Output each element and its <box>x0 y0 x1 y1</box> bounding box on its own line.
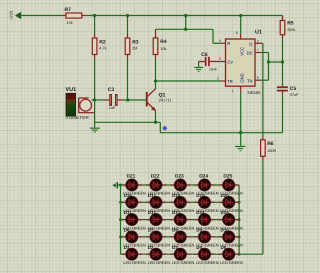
svg-text:4.7k: 4.7k <box>99 46 106 50</box>
terminal output left of matrix <box>112 182 120 188</box>
svg-text:7: 7 <box>257 49 259 53</box>
LED D1 LED-GREEN <box>122 245 146 265</box>
svg-text:1: 1 <box>232 89 234 93</box>
node DC/R5 <box>267 60 270 63</box>
node rail-R2 <box>93 14 96 17</box>
LED D6 LED-GREEN <box>122 228 146 248</box>
ground symbol at C6 <box>194 62 203 73</box>
svg-text:C5: C5 <box>290 86 297 92</box>
wire link to pin R <box>213 29 220 43</box>
pin 5 CV stub <box>219 57 226 61</box>
wire node to C5 <box>282 62 284 86</box>
wire LED row 3 <box>121 219 240 221</box>
ground symbol under U1 <box>235 133 245 152</box>
pin 2 TR stub <box>217 77 226 81</box>
svg-text:D9: D9 <box>196 228 202 233</box>
svg-text:47uF: 47uF <box>290 93 299 97</box>
svg-text:LED-GREEN: LED-GREEN <box>172 261 195 265</box>
svg-text:R5: R5 <box>287 21 294 27</box>
svg-text:R2: R2 <box>99 40 106 46</box>
transistor Q1 2N1711 <box>146 89 172 111</box>
node left bus junction <box>119 218 122 221</box>
svg-text:3: 3 <box>257 39 259 43</box>
LED D19 LED-GREEN <box>195 193 219 213</box>
node R4 link <box>184 28 187 31</box>
svg-text:VCC: VCC <box>239 47 244 56</box>
svg-text:LED-GREEN: LED-GREEN <box>220 261 243 265</box>
svg-text:R7: R7 <box>65 7 72 13</box>
ground symbol under mic <box>90 122 100 132</box>
LED D11 LED-GREEN <box>122 210 146 230</box>
wire rail to R2 <box>94 16 96 35</box>
svg-text:D12: D12 <box>148 210 157 215</box>
pin 1 GND stub <box>232 86 241 93</box>
svg-text:D13: D13 <box>172 210 181 215</box>
svg-text:2N1711: 2N1711 <box>159 99 172 103</box>
node left bus row1 <box>119 184 122 187</box>
svg-text:C6: C6 <box>201 52 208 58</box>
svg-text:D14: D14 <box>196 210 205 215</box>
svg-text:8: 8 <box>236 31 238 35</box>
wire rail to R3 <box>127 16 129 35</box>
marker origin diamond <box>162 126 167 131</box>
svg-text:D10: D10 <box>221 228 230 233</box>
resistor R4 10k <box>153 29 167 58</box>
LED D5 LED-GREEN <box>219 245 243 265</box>
wire mic to node <box>92 99 105 101</box>
node R5/C5 <box>281 60 284 63</box>
wire LED row 1 <box>121 184 240 186</box>
wire R2 to mic node <box>94 59 96 100</box>
LED D16 LED-GREEN <box>122 193 146 213</box>
svg-text:D21: D21 <box>127 173 136 179</box>
svg-text:NE555: NE555 <box>248 90 262 95</box>
svg-text:U1: U1 <box>255 30 262 36</box>
svg-text:D18: D18 <box>172 193 181 198</box>
node rail-R3 <box>126 14 129 17</box>
svg-text:D17: D17 <box>148 193 157 198</box>
svg-text:D8: D8 <box>172 228 178 233</box>
svg-text:VU1: VU1 <box>66 87 77 93</box>
power terminal +220 arrow <box>8 10 21 20</box>
resistor R6 100R <box>261 136 277 160</box>
wire rail main segment <box>86 15 283 17</box>
wire TR to U1 pin2 <box>156 80 221 82</box>
wire DC node to R5 node <box>269 61 283 63</box>
svg-text:D24: D24 <box>199 173 208 179</box>
wire LED row 5 <box>121 253 240 255</box>
LED D24 LED-GREEN <box>195 173 219 195</box>
LED D23 LED-GREEN <box>170 173 194 195</box>
svg-text:D7: D7 <box>148 228 154 233</box>
svg-text:2M: 2M <box>132 46 137 50</box>
wire GND pin down <box>240 92 242 133</box>
LED D2 LED-GREEN <box>146 245 170 265</box>
pin 4 R stub <box>219 39 226 43</box>
node right bus junction <box>238 235 241 238</box>
LED D13 LED-GREEN <box>170 210 194 230</box>
svg-text:R6: R6 <box>267 141 274 147</box>
wire R6 down to LED matrix <box>239 160 263 254</box>
LED D14 LED-GREEN <box>195 210 219 230</box>
resistor R5 200k <box>280 16 295 39</box>
svg-text:LED-GREEN: LED-GREEN <box>123 261 146 265</box>
pin 3 Q stub <box>255 39 261 43</box>
svg-text:D16: D16 <box>124 193 133 198</box>
wire mic node down to ground wire <box>94 100 96 122</box>
LED D10 LED-GREEN <box>219 228 243 248</box>
svg-text:D4: D4 <box>196 245 202 250</box>
svg-text:LED-GREEN: LED-GREEN <box>196 261 219 265</box>
wire rail corner to R5 <box>282 16 284 21</box>
wire right bus <box>238 185 240 254</box>
svg-text:CV: CV <box>227 60 233 65</box>
wire Q output down to R6 <box>261 43 263 136</box>
svg-text:R: R <box>227 41 230 46</box>
svg-text:GND: GND <box>239 73 244 83</box>
wire C3 to Q1 base <box>122 99 145 101</box>
resistor R3 2M <box>125 34 139 59</box>
resistor R7 15k <box>62 7 86 25</box>
node right bus bottom <box>238 253 241 256</box>
capacitor C6 10nF <box>199 52 221 71</box>
node emitter/ground wire <box>154 121 157 124</box>
node R3/base <box>126 98 129 101</box>
LED D22 LED-GREEN <box>146 173 170 195</box>
svg-text:4: 4 <box>219 39 221 43</box>
node left bus junction <box>119 201 122 204</box>
node mic/R2 <box>93 98 96 101</box>
svg-text:D23: D23 <box>175 173 184 179</box>
LED D15 LED-GREEN <box>219 210 243 230</box>
LED D12 LED-GREEN <box>146 210 170 230</box>
wire R3 to base node <box>127 59 129 100</box>
svg-text:D25: D25 <box>223 173 232 179</box>
LED D4 LED-GREEN <box>195 245 219 265</box>
svg-text:5: 5 <box>219 57 221 61</box>
LED D8 LED-GREEN <box>170 228 194 248</box>
op-amp U1 NE555 timer <box>226 30 262 96</box>
wire left bus <box>120 185 122 254</box>
resistor R2 4.7k <box>92 34 106 59</box>
node right bus junction <box>238 201 241 204</box>
LED D20 LED-GREEN <box>219 193 243 213</box>
svg-text:D1: D1 <box>124 245 130 250</box>
wire R5 to node <box>282 39 284 62</box>
LED D25 LED-GREEN <box>219 173 243 195</box>
wire ground run mic to step <box>95 121 161 123</box>
wire LED row 2 <box>121 201 240 203</box>
svg-text:6: 6 <box>257 76 259 80</box>
svg-text:R3: R3 <box>132 40 139 46</box>
wire TH to vertical <box>261 79 269 81</box>
LED D21 LED-GREEN <box>122 173 146 195</box>
svg-text:LED-GREEN: LED-GREEN <box>148 261 171 265</box>
svg-text:TR: TR <box>227 79 233 84</box>
svg-text:D6: D6 <box>124 228 130 233</box>
wire ground run to C5 corner <box>160 132 282 134</box>
svg-text:Q: Q <box>249 41 252 46</box>
wire R4 to collector <box>155 59 157 89</box>
pin 6 TH stub <box>255 76 261 80</box>
wire DC to vertical <box>261 53 269 81</box>
svg-text:TH: TH <box>247 78 253 83</box>
svg-text:2: 2 <box>217 77 219 81</box>
node left bus junction <box>119 235 122 238</box>
svg-text:D19: D19 <box>196 193 205 198</box>
svg-text:10nF: 10nF <box>209 68 218 72</box>
pin 7 DC stub <box>255 49 261 53</box>
LED D18 LED-GREEN <box>170 193 194 213</box>
svg-text:D20: D20 <box>221 193 230 198</box>
vu-meter VU1 VUMETER <box>66 87 95 120</box>
svg-text:DC: DC <box>247 51 253 56</box>
svg-text:1uF: 1uF <box>109 106 116 110</box>
svg-text:D22: D22 <box>151 173 160 179</box>
LED D9 LED-GREEN <box>195 228 219 248</box>
wire C5 down to ground run <box>282 94 284 133</box>
svg-text:D11: D11 <box>124 210 133 215</box>
svg-text:D2: D2 <box>148 245 154 250</box>
wire LED row 4 <box>121 236 240 238</box>
wire rail left segment <box>21 15 62 17</box>
svg-text:C3: C3 <box>108 87 115 93</box>
svg-text:+220: +220 <box>8 10 13 20</box>
node rail-VCC <box>239 14 242 17</box>
wire emitter down <box>155 111 157 123</box>
svg-text:100R: 100R <box>267 149 276 153</box>
node TR junction <box>154 79 157 82</box>
node right bus junction <box>238 218 241 221</box>
node U1 gnd junction <box>239 131 242 134</box>
node rail-R4link <box>184 14 187 17</box>
wire ground step down <box>159 122 161 132</box>
svg-text:15k: 15k <box>67 21 73 25</box>
svg-text:D15: D15 <box>221 210 230 215</box>
svg-text:200k: 200k <box>287 28 295 32</box>
svg-text:10k: 10k <box>160 47 166 51</box>
LED D7 LED-GREEN <box>146 228 170 248</box>
capacitor C5 47uF <box>277 86 299 97</box>
svg-text:D5: D5 <box>221 245 227 250</box>
LED D17 LED-GREEN <box>146 193 170 213</box>
wire rail jog to R4 top <box>156 16 214 30</box>
LED D3 LED-GREEN <box>170 245 194 265</box>
capacitor C3 1uF <box>105 87 123 110</box>
wire rail to VCC <box>240 16 242 34</box>
svg-text:D3: D3 <box>172 245 178 250</box>
svg-text:VUMETER: VUMETER <box>66 115 89 120</box>
pin 8 VCC stub <box>236 31 241 39</box>
svg-text:R4: R4 <box>160 39 167 45</box>
